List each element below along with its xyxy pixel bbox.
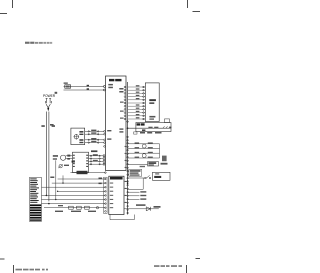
label R8	[119, 131, 123, 132]
below-lamp row labels	[140, 132, 162, 134]
resistor R11	[69, 206, 74, 209]
no-use box	[148, 162, 159, 166]
junction dot Q1 line	[55, 199, 56, 200]
connector CN1 plug symbol	[46, 104, 50, 107]
Q1 collector wire	[66, 155, 73, 157]
sensor bracket label	[162, 156, 167, 162]
svg-text:POWER: POWER	[43, 93, 55, 98]
below-lamp row box	[134, 132, 137, 134]
label LAMP	[137, 123, 145, 125]
door switch SW1	[145, 175, 151, 178]
label 0.8	[52, 125, 55, 127]
labels left of pin strip	[99, 178, 103, 185]
label LNK inside	[77, 171, 88, 174]
inductor L1 loop	[58, 164, 63, 168]
registration mark bottom-right vertical	[186, 265, 188, 273]
long wire row 7	[42, 203, 106, 205]
lamp pin arrows	[163, 126, 168, 128]
label DISPLAY PWB line1	[149, 99, 156, 101]
label above ic wires	[91, 150, 97, 152]
pins relay rows	[104, 131, 106, 148]
pins lower box left circles	[105, 172, 107, 212]
sensor vertical tie	[159, 144, 161, 158]
lamp LP1 box	[136, 123, 171, 132]
long wire row 0	[70, 172, 105, 174]
label PU1	[119, 88, 123, 90]
bus wire main vertical	[127, 82, 129, 215]
parts list box	[29, 178, 41, 222]
footer doc number right	[154, 265, 182, 267]
label R2	[108, 87, 113, 89]
ic U3 right pins	[90, 155, 100, 165]
bus pin ticks	[125, 146, 127, 203]
label main interior row b	[107, 138, 111, 139]
relay wire labels	[91, 130, 96, 143]
stub wire row 1	[128, 191, 140, 193]
relay connector pins mid	[88, 131, 99, 144]
junction dot bus a	[127, 180, 129, 182]
label M.P PU PWB	[110, 177, 123, 180]
terminal mark upper	[87, 85, 89, 87]
wire color labels CN2	[136, 85, 140, 118]
junction dot row4	[57, 191, 58, 192]
label below no-use wire	[140, 166, 145, 167]
label R7	[119, 128, 123, 129]
bus pin mid b	[127, 140, 129, 142]
label 6.3	[41, 125, 44, 127]
label DOOR SW	[154, 176, 161, 178]
registration mark top-right vertical	[187, 0, 189, 8]
sensor row labels mid	[135, 142, 140, 158]
stub wire row 3	[128, 198, 140, 200]
wire power line N	[48, 112, 50, 202]
sensor row labels right	[148, 142, 153, 158]
title text "2000 200-A"	[25, 42, 52, 44]
box2 interior labels	[110, 183, 113, 209]
junction dot v2	[48, 203, 50, 205]
pcb box U4 M.P PU PWB lower	[109, 176, 124, 214]
door sw small mark	[155, 173, 159, 174]
label BUZ	[154, 206, 161, 208]
label RY1	[50, 124, 54, 126]
label U2 interior b	[149, 118, 154, 119]
stub wire row 2	[128, 195, 140, 197]
pins CN2 left column	[124, 86, 126, 120]
registration mark bottom-left horizontal	[0, 258, 5, 260]
motor M1 circle	[74, 135, 78, 139]
pin AC2	[104, 89, 106, 91]
capacitor C5 circle	[96, 207, 98, 209]
resistor R12	[77, 206, 82, 209]
long wire row 3	[42, 186, 106, 188]
label 1N4148	[136, 204, 146, 206]
resistor row wire	[44, 207, 105, 209]
label interior c	[120, 102, 124, 103]
sensor TH2 circle	[142, 154, 146, 158]
lamp wire	[128, 127, 171, 129]
wire row 2 vertical	[62, 175, 64, 183]
long wire row 4	[58, 190, 106, 192]
component marks near Q1	[67, 155, 75, 163]
door switch return wire	[128, 178, 144, 189]
terminal mark lower	[87, 88, 89, 90]
resistor R13	[85, 206, 90, 209]
bus pin mid a	[127, 136, 129, 138]
buzzer wire	[124, 208, 159, 210]
label F1	[64, 82, 68, 84]
label Q1b	[53, 158, 57, 159]
parts list text lines	[30, 178, 39, 202]
ic U3 wire labels	[93, 154, 98, 161]
junction dot v1	[46, 195, 48, 197]
label L1	[64, 165, 69, 166]
registration mark bottom-right horizontal	[196, 258, 201, 260]
diode D1 1N4148	[146, 207, 150, 211]
label U2 interior a	[149, 116, 155, 118]
parts list bold rows	[30, 204, 41, 220]
door switch wire	[128, 177, 145, 179]
long wire row 2	[52, 182, 106, 184]
label M.P. PU	[109, 79, 122, 81]
door switch box	[153, 172, 171, 180]
long wire row 5	[42, 194, 106, 196]
label TH1	[108, 84, 113, 86]
label DISPLAY PWB line2	[149, 102, 154, 104]
pins ic rows squares	[103, 155, 105, 165]
Q1 emitter wire	[66, 158, 73, 160]
bottom loop wire	[110, 215, 134, 220]
junction dot lamp	[127, 127, 129, 129]
pins CN2 right column	[143, 86, 145, 120]
pcb main box U1 M.P. PU	[106, 76, 127, 171]
label interior d	[120, 111, 124, 112]
no-use wire	[128, 164, 148, 166]
label right of no-use	[161, 163, 168, 165]
label R50	[50, 177, 54, 179]
ic U3 switcher box	[73, 152, 89, 172]
connector CN1 pins	[45, 98, 51, 103]
fuse F1	[64, 85, 104, 88]
connector rows CN2 bus to display	[128, 87, 146, 119]
thermistor rows wires	[128, 144, 160, 158]
stub labels	[140, 191, 146, 200]
label no-use	[148, 162, 156, 164]
ic U3 right wires	[89, 156, 104, 164]
lamp end tick	[169, 127, 171, 129]
wire Q1 base down	[55, 160, 57, 199]
resistor row labels	[55, 205, 96, 212]
registration mark top-right horizontal	[193, 11, 201, 13]
registration mark top-left vertical	[12, 0, 14, 8]
label PU2	[119, 91, 123, 93]
wire power line L	[45, 112, 47, 196]
junction dot bus b	[127, 183, 129, 185]
registration mark bottom-left vertical	[13, 265, 15, 273]
sensor TH1 circle	[142, 144, 146, 148]
transistor Q1	[61, 155, 66, 160]
relay internal contacts	[79, 131, 83, 143]
bus pins lower	[127, 142, 129, 213]
label F PWB block	[129, 169, 142, 176]
connector CN1 arrow	[47, 108, 49, 111]
relay wires to main	[85, 131, 104, 142]
pin AC1	[104, 86, 106, 88]
label under lamp wire	[142, 129, 145, 131]
label interior e	[120, 118, 124, 119]
long wire row 1	[58, 178, 106, 180]
footer doc number left	[16, 269, 49, 271]
label TH	[55, 92, 58, 94]
pcb display box U2	[145, 83, 159, 122]
label Q1	[53, 155, 58, 157]
connector strip lower box	[104, 177, 108, 213]
label main interior row a	[107, 130, 111, 131]
ic U3 pin ticks	[73, 155, 88, 167]
relay box RY1	[71, 128, 85, 145]
bus pin above lamp	[127, 121, 129, 123]
wire mains lower	[64, 89, 104, 91]
junction dot row2	[62, 182, 63, 183]
long wire row 6	[42, 199, 106, 201]
registration mark top-left horizontal	[0, 13, 7, 15]
motor M1 cross	[74, 134, 80, 140]
lamp aux box	[165, 119, 170, 123]
capacitor marks on lamp wire	[148, 127, 158, 128]
